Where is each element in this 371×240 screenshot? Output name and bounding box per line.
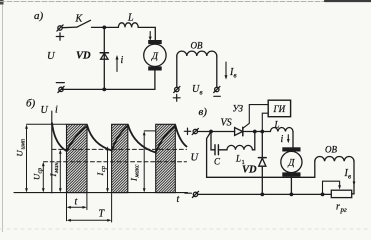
pulse generator GI box (268, 100, 290, 117)
right leg wire of OV (216, 56, 218, 87)
label I_sr rotated (95, 165, 107, 176)
wire motor bottom to rail (62, 71, 155, 90)
node dot VD bottom on rail (260, 193, 264, 197)
label VS (221, 118, 232, 129)
label GI (273, 104, 286, 114)
plus sign (circuit v) (184, 128, 190, 134)
label a) (34, 10, 44, 22)
svg-text:i: i (281, 134, 284, 145)
wire OV right down to rheostat (352, 161, 354, 194)
svg-text:а): а) (34, 10, 44, 22)
label D (circuit v) (287, 159, 295, 169)
svg-text:U: U (47, 51, 56, 62)
label Iv (circuit v) (344, 168, 352, 181)
diode VD symbol (circuit v) (258, 158, 266, 167)
svg-text:i: i (121, 55, 124, 66)
label L (circuit a) (127, 13, 134, 24)
label U_sr rotated (32, 168, 44, 180)
diode VD branch wire (circuit a) (103, 27, 105, 89)
svg-text:L: L (127, 13, 134, 24)
I_sr dimension arrow (106, 146, 109, 192)
svg-text:VS: VS (221, 118, 232, 129)
label b) graph (26, 98, 36, 110)
label t at axis end (177, 194, 180, 205)
commutation branch wire down from node A (211, 132, 215, 150)
label r_rg (336, 202, 347, 215)
label I_min rotated (48, 162, 60, 177)
terminal - (circuit v) (192, 191, 198, 197)
label t dimension (75, 197, 78, 208)
label Iv (middle fragment) (229, 67, 237, 80)
terminal + (circuit v) (192, 128, 198, 134)
svg-text:t: t (75, 197, 78, 208)
label T dimension (99, 209, 106, 220)
rheostat wiper arrow (323, 181, 342, 194)
svg-text:в): в) (199, 106, 208, 118)
wire terminal to node A (198, 131, 212, 133)
node dot L1 return (253, 130, 257, 134)
y axis (graph) (51, 111, 53, 193)
minus sign (circuit v) (185, 192, 191, 194)
svg-text:K: K (75, 14, 84, 25)
label v) (199, 106, 208, 118)
current arrow i (circuit v) (287, 135, 290, 143)
voltage pulse 1 hatched (67, 124, 88, 192)
U_imp dimension arrow (25, 125, 28, 193)
wire node A to thyristor (211, 131, 235, 133)
scan page edge line left (0, 0, 4, 232)
motor D circle (circuit a) (144, 44, 166, 66)
svg-text:ГИ: ГИ (273, 104, 286, 114)
svg-text:U: U (15, 150, 25, 157)
label U axis (41, 105, 49, 116)
minus sign under right terminal (middle) (214, 95, 221, 97)
label i (circuit v) (281, 134, 284, 145)
label I_max rotated (129, 164, 141, 182)
node dot (diode bottom, circuit a) (102, 88, 106, 92)
label i axis (55, 105, 58, 116)
label D (circuit a) (151, 52, 159, 62)
wire GI to cathode node (262, 113, 268, 131)
motor D circle (circuit v) (281, 151, 302, 172)
freewheeling current arrow i (circuit a) (116, 55, 119, 72)
label OV (middle fragment) (191, 41, 203, 51)
wire switch to node (92, 26, 119, 28)
terminal - of U source (circuit a) (58, 86, 64, 92)
voltage pulse 3 hatched (156, 124, 176, 192)
wire thyristor cathode to L coil (243, 131, 271, 133)
wire L down to motor (292, 132, 294, 148)
node dot motor bottom on rail (290, 193, 294, 197)
current curve i(t) (52, 123, 187, 153)
plus sign (circuit a) (56, 33, 63, 40)
svg-text:б): б) (26, 98, 36, 110)
wire C to L1 (218, 149, 227, 151)
I_max dimension arrow (143, 131, 146, 192)
svg-text:имп: имп (20, 139, 27, 150)
x axis (graph) (14, 192, 188, 194)
U_imp level line (27, 123, 67, 125)
wire L to motor corner (138, 27, 155, 40)
current arrow into motor (circuit a) (149, 32, 152, 41)
label U (circuit v) (191, 153, 200, 164)
node A dot (anode node) (209, 130, 213, 134)
capacitor C (215, 145, 218, 155)
inductor L1 (227, 145, 252, 149)
scan page edge line top (0, 0, 371, 3)
svg-text:УЗ: УЗ (233, 104, 244, 114)
label U (circuit a) (47, 51, 56, 62)
dashed U_sr level (44, 161, 187, 163)
rheostat r_rg box (331, 190, 351, 197)
bottom rail (circuit v) (199, 193, 332, 195)
svg-text:T: T (99, 209, 106, 220)
svg-text:в: в (234, 72, 237, 80)
diode VD symbol (circuit a) (100, 53, 108, 60)
field winding OV coil (circuit v) (315, 157, 354, 162)
svg-text:ср: ср (38, 168, 44, 174)
svg-text:ОВ: ОВ (191, 41, 203, 51)
node dot VD/GI branch (260, 130, 264, 134)
svg-text:VD: VD (242, 165, 257, 176)
T dimension arrow (67, 219, 112, 222)
node dot (diode top, circuit a) (102, 26, 106, 30)
thyristor gate wire UZ (243, 105, 268, 129)
motor D brushes (circuit v) (282, 147, 300, 176)
label i (circuit a) (121, 55, 124, 66)
label VD (circuit a) (76, 51, 91, 62)
node dot wiper on rail (321, 193, 325, 197)
svg-text:t: t (177, 194, 180, 205)
diode VD branch (circuit v) (261, 132, 263, 195)
wire L1 up to cathode node (252, 132, 254, 150)
svg-text:L: L (274, 120, 280, 130)
terminal - Uv (middle fragment) (214, 86, 220, 92)
left leg wire of OV (176, 56, 178, 87)
voltage pulse 2 hatched (112, 124, 128, 192)
motor D brushes (circuit a) (148, 40, 162, 71)
label L1 (235, 154, 245, 167)
field winding OV coil (middle fragment) (177, 51, 217, 56)
label Uv (middle fragment) (192, 84, 203, 97)
svg-text:VD: VD (76, 51, 91, 62)
wire motor bottom to rail (290, 177, 292, 195)
svg-text:ОВ: ОВ (325, 145, 337, 155)
svg-text:L: L (235, 154, 241, 164)
svg-text:U: U (41, 105, 49, 116)
svg-text:i: i (55, 105, 58, 116)
inductor L (circuit a) (118, 23, 138, 28)
svg-text:мин: мин (53, 162, 60, 174)
switch K (62, 20, 90, 27)
field current arrow Iv (middle fragment) (225, 62, 228, 80)
U_sr dimension arrow (42, 162, 45, 193)
label UZ (233, 104, 244, 114)
svg-text:Д: Д (151, 52, 159, 62)
svg-text:Д: Д (287, 159, 295, 169)
minus sign (circuit a) (56, 82, 64, 84)
field current arrowhead Iv (circuit v) (353, 182, 356, 186)
dashed I_min level (52, 148, 187, 150)
plus sign under left terminal (middle) (173, 94, 180, 101)
I_max level tick (144, 130, 156, 132)
svg-text:макс: макс (134, 164, 141, 178)
terminal + of U source (circuit a) (57, 25, 63, 31)
inductor L (circuit v) (270, 128, 293, 132)
label C (214, 157, 221, 167)
t dimension arrow (67, 206, 87, 209)
thyristor VS symbol (235, 127, 243, 135)
t dimension extension lines (67, 193, 112, 222)
scan page edge line bottom (0, 228, 371, 230)
svg-text:ср: ср (100, 165, 107, 172)
label L (circuit v) (274, 120, 280, 130)
svg-text:r: r (336, 202, 340, 213)
svg-text:U: U (191, 153, 200, 164)
svg-text:рг: рг (340, 206, 348, 214)
svg-text:в: в (348, 173, 351, 181)
svg-text:в: в (200, 89, 203, 97)
terminal + Uv (middle fragment) (174, 86, 180, 92)
label U_imp rotated (15, 139, 27, 157)
label VD (circuit v) (242, 165, 257, 176)
field feed wire from node A to OV (207, 132, 315, 178)
label OV (circuit v) (325, 145, 337, 155)
I_min dimension arrow (59, 150, 62, 193)
svg-text:С: С (214, 157, 221, 167)
label K (75, 14, 84, 25)
